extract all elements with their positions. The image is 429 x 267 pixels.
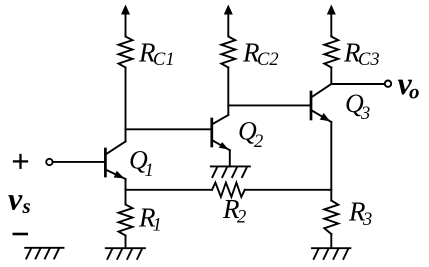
svg-text:C3: C3 (358, 50, 380, 70)
power arrow VCC branch 2 (224, 5, 233, 37)
resistor RC1 (119, 36, 133, 68)
wire branch1 vertical (RC1 to Q1 collector) (125, 68, 127, 142)
wire output node to vo terminal (331, 83, 384, 85)
svg-text:3: 3 (360, 104, 370, 124)
resistor R3 (324, 201, 338, 235)
label Q1 (129, 146, 154, 182)
minus sign input (14, 233, 27, 236)
input terminal circle (46, 159, 52, 165)
wire input terminal to Q1 base (53, 161, 106, 163)
label vo (398, 65, 420, 104)
power arrow VCC branch 1 (121, 5, 130, 37)
wire R1 to ground (125, 236, 127, 248)
wire Q3 emitter vertical (330, 122, 332, 201)
label Q3 (345, 89, 370, 124)
label R2 (222, 194, 246, 228)
resistor R2 (212, 183, 245, 197)
svg-text:o: o (409, 80, 420, 104)
svg-text:2: 2 (254, 132, 263, 152)
wire Q1 collector node to Q2 base (126, 128, 212, 130)
svg-text:v: v (8, 181, 23, 217)
svg-text:2: 2 (237, 208, 246, 228)
ground at Q2 emitter (211, 166, 250, 177)
ground at input (25, 248, 63, 259)
svg-text:C1: C1 (153, 50, 175, 70)
wire R3 to ground (330, 234, 332, 248)
label R1 (138, 203, 162, 236)
label R3 (348, 197, 372, 231)
wire R2 to Q3 emitter node (245, 189, 331, 191)
terminal vo circle (385, 81, 391, 87)
wire Q1 emitter vertical (125, 179, 127, 204)
wire Q2 collector node to Q3 base (228, 104, 311, 106)
label vs (8, 181, 31, 219)
ground under R1 (106, 248, 145, 259)
transistor Q1 (105, 142, 125, 180)
svg-text:s: s (22, 194, 31, 218)
svg-text:3: 3 (362, 210, 372, 230)
wire branch2 vertical (RC2 to Q2 collector) (227, 68, 229, 116)
transistor Q3 (311, 84, 331, 122)
ground under R3 (312, 248, 350, 259)
svg-text:C2: C2 (257, 50, 279, 70)
resistor R1 (119, 204, 133, 236)
label RC1 (138, 38, 175, 71)
resistor RC2 (221, 36, 235, 68)
power arrow VCC branch 3 (327, 5, 336, 37)
transistor Q2 (212, 115, 230, 150)
svg-text:1: 1 (153, 216, 162, 236)
wire Q2 emitter vertical (229, 150, 231, 166)
wire emitter Q1 node to R2 (126, 189, 213, 191)
label RC2 (242, 38, 279, 71)
resistor RC3 (324, 36, 338, 68)
plus sign input (14, 155, 27, 168)
label RC3 (343, 38, 380, 71)
label Q2 (238, 117, 263, 153)
wire branch3 vertical (RC3 to Q3 collector / output node) (330, 68, 332, 85)
svg-text:1: 1 (145, 161, 154, 181)
